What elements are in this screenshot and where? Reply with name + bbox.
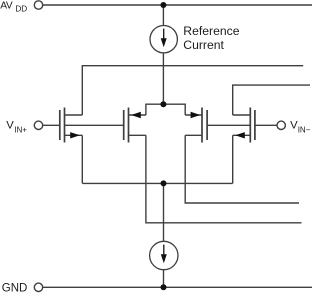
svg-text:GND: GND xyxy=(2,283,28,293)
svg-text:VIN+: VIN+ xyxy=(6,119,27,134)
arrow Q1 source xyxy=(70,132,80,138)
node junction top rail xyxy=(160,2,166,8)
terminal AVDD xyxy=(34,1,42,9)
wire current source to PMOS sources node xyxy=(162,53,164,104)
transistor Q1 (NMOS left, gate VIN+) xyxy=(43,108,123,184)
wire NMOS tail to bottom current source xyxy=(163,183,165,241)
current source I1 (reference) xyxy=(150,26,177,53)
node junction NMOS sources xyxy=(161,180,167,186)
node junction GND rail xyxy=(161,284,167,290)
arrow Q4 source xyxy=(235,132,245,138)
wire gate link Q3-Q4 xyxy=(207,124,250,126)
transistor Q2 (PMOS left) xyxy=(124,104,302,223)
wire line1 from Q1 drain to right edge xyxy=(82,66,303,115)
wire line3 Q3 drain to right edge xyxy=(185,135,299,203)
wire NMOS common source rail xyxy=(82,182,232,184)
wire line4 Q2 drain to right edge xyxy=(146,135,302,223)
current source I2 (tail) xyxy=(150,241,178,269)
svg-text:Reference: Reference xyxy=(183,24,239,38)
terminal VIN+ xyxy=(34,121,42,129)
svg-text:AVDD: AVDD xyxy=(0,1,27,14)
transistor Q3 (PMOS right) xyxy=(163,104,299,203)
wire GND bottom rail xyxy=(43,286,312,288)
wire line2 from Q4 drain to right edge xyxy=(233,85,310,115)
arrow Q3 source xyxy=(191,112,201,118)
wire bottom current source to GND xyxy=(163,270,165,288)
wire reference current feed xyxy=(162,5,164,26)
terminal GND xyxy=(34,283,42,291)
terminal VIN- xyxy=(277,121,285,129)
svg-text:Current: Current xyxy=(183,38,224,52)
svg-text:VIN−: VIN− xyxy=(290,119,311,134)
label Reference Current xyxy=(183,24,239,52)
wire AVDD top rail xyxy=(43,4,312,6)
arrow Q2 source xyxy=(131,112,141,118)
transistor Q4 (NMOS right, gate VIN-) xyxy=(233,108,277,184)
node junction PMOS sources xyxy=(160,101,166,107)
